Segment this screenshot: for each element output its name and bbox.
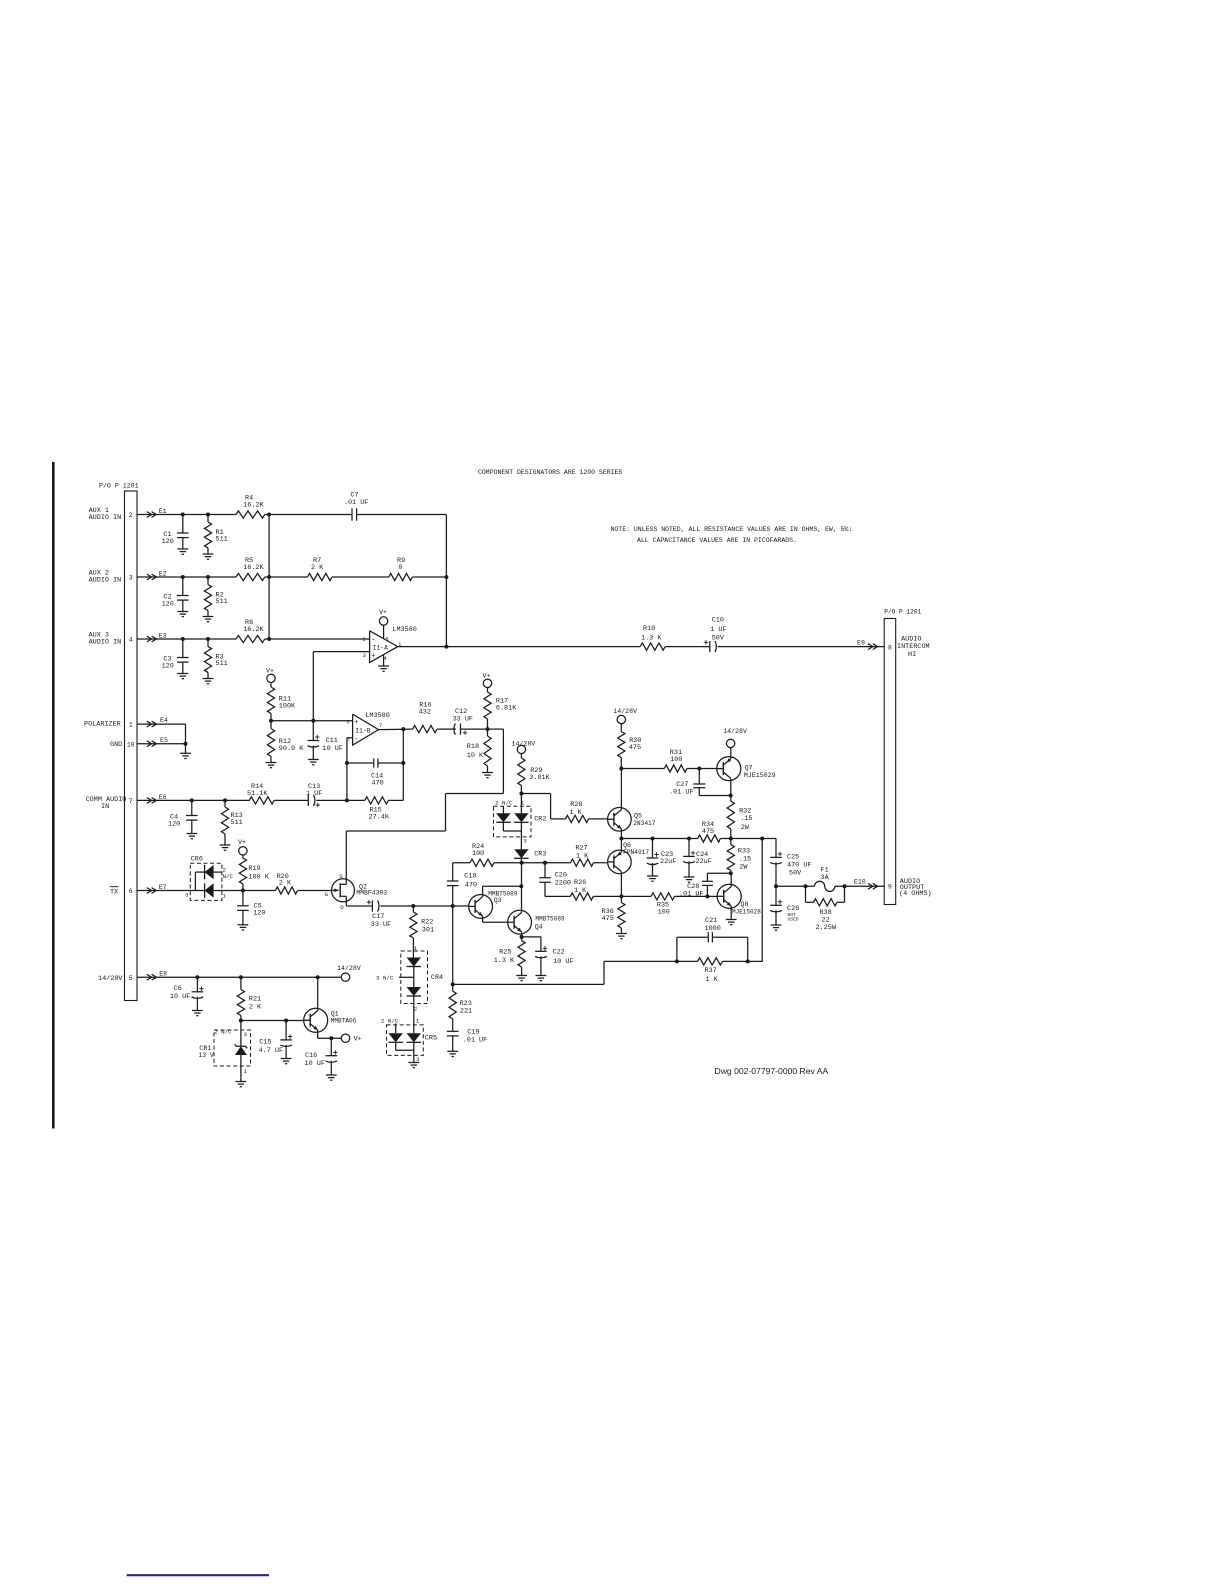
svg-text:I1-B: I1-B: [355, 727, 371, 734]
resistor R7: [308, 557, 333, 581]
wire I1-A output: [398, 646, 641, 648]
svg-text:LM3580: LM3580: [365, 712, 389, 720]
svg-text:Q8: Q8: [741, 901, 749, 908]
svg-text:C6: C6: [174, 985, 182, 993]
svg-text:14/28V: 14/28V: [613, 708, 637, 715]
svg-text:1 UF: 1 UF: [306, 790, 322, 798]
svg-text:S: S: [339, 873, 343, 880]
entry arrow E2: [147, 574, 157, 580]
power V+ R17: [483, 673, 492, 693]
svg-text:R18: R18: [467, 743, 479, 751]
ground C3: [177, 674, 188, 679]
svg-text:120: 120: [162, 663, 174, 671]
note text line1: [611, 526, 853, 533]
svg-text:7: 7: [129, 798, 133, 805]
svg-text:-: -: [354, 736, 358, 744]
svg-text:Q1: Q1: [331, 1010, 339, 1017]
wire R16 to C12: [437, 728, 456, 730]
svg-text:MMBF4393: MMBF4393: [356, 890, 387, 897]
ground C5: [238, 925, 249, 930]
svg-text:1 K: 1 K: [576, 853, 589, 861]
resistor R15: [347, 797, 403, 822]
svg-text:C11: C11: [326, 737, 338, 745]
capacitor C10: [704, 617, 727, 653]
svg-text:1 K: 1 K: [570, 809, 583, 817]
entry arrow E10: [868, 883, 878, 889]
capacitor C22: [522, 937, 574, 976]
entry arrow E7: [147, 888, 157, 894]
svg-text:MMBT5089: MMBT5089: [535, 916, 565, 923]
resistor R9: [389, 557, 413, 581]
svg-text:C17: C17: [372, 913, 384, 921]
wire R5 to R7: [265, 576, 308, 578]
svg-text:.15: .15: [740, 815, 752, 823]
svg-text:3A: 3A: [821, 874, 830, 882]
svg-text:3: 3: [129, 575, 133, 582]
resistor R16: [413, 702, 437, 733]
ground CR1: [236, 1082, 247, 1087]
label COMM AUDIO IN: [86, 796, 127, 811]
svg-text:C20: C20: [555, 872, 567, 880]
capacitor C24: [683, 839, 712, 878]
resistor R22: [410, 906, 434, 951]
svg-text:USED: USED: [788, 917, 799, 923]
transistor Q8 MJE15028: [717, 884, 761, 915]
ground R13: [220, 845, 231, 850]
svg-text:16.2K: 16.2K: [243, 564, 264, 572]
svg-text:100 K: 100 K: [248, 873, 269, 881]
capacitor C26: [770, 886, 799, 925]
wire I1-B minus input: [345, 738, 353, 803]
resistor R30: [618, 732, 642, 771]
wire Q8 collector: [730, 873, 732, 886]
wire Q3 collector: [483, 884, 524, 896]
zener CR1: [199, 1021, 251, 1082]
svg-text:V+: V+: [483, 673, 491, 680]
svg-text:CR5: CR5: [425, 1035, 437, 1043]
capacitor C11: [308, 721, 343, 760]
svg-text:-: -: [371, 636, 375, 644]
wire Q1 emitter: [318, 1030, 342, 1040]
wire E1 line: [137, 513, 271, 517]
diode pack CR6: [185, 855, 243, 900]
label E10: [854, 879, 866, 886]
svg-text:R28: R28: [570, 801, 582, 809]
resistor R5: [236, 557, 265, 581]
svg-text:FPN4917: FPN4917: [623, 849, 649, 856]
svg-text:E5: E5: [160, 737, 168, 744]
pin 10 label: [127, 741, 135, 748]
svg-text:E2: E2: [159, 571, 167, 578]
op-amp I1-B: [346, 714, 382, 745]
capacitor C14: [347, 758, 403, 787]
svg-text:511: 511: [216, 536, 228, 544]
label LM3580 I1-A: [392, 626, 416, 634]
resistor R26: [570, 879, 621, 900]
svg-text:4: 4: [129, 637, 133, 644]
svg-text:CR6: CR6: [191, 855, 203, 863]
resistor R10: [640, 625, 665, 650]
svg-text:3: 3: [244, 1031, 248, 1038]
label E6: [159, 794, 167, 801]
diode pack CR4: [376, 945, 443, 1013]
svg-text:R26: R26: [574, 879, 586, 887]
svg-text:120: 120: [162, 538, 174, 546]
svg-text:E7: E7: [159, 884, 167, 891]
wire node to Q2 source: [346, 729, 503, 879]
entry arrow E5: [147, 741, 157, 747]
svg-text:10 UF: 10 UF: [305, 1060, 325, 1068]
ground C26: [771, 925, 782, 930]
svg-text:14/28V: 14/28V: [723, 728, 747, 735]
capacitor C18: [447, 863, 477, 906]
svg-text:50V: 50V: [712, 635, 725, 643]
svg-text:14/28V: 14/28V: [512, 740, 536, 747]
title text: [478, 469, 622, 476]
svg-text:E4: E4: [160, 717, 168, 724]
svg-text:511: 511: [231, 819, 243, 827]
svg-text:R10: R10: [643, 625, 655, 633]
svg-text:9: 9: [888, 883, 892, 890]
svg-text:16.2K: 16.2K: [243, 626, 264, 634]
wire Q7 emitter: [730, 748, 732, 759]
ground R2: [203, 617, 214, 622]
svg-text:.01 UF: .01 UF: [679, 890, 703, 898]
diode pack CR2: [494, 794, 547, 850]
transistor Q2 MMBF4393: [325, 873, 388, 911]
wire E2 line: [137, 575, 448, 579]
resistor R38 parallel: [806, 886, 845, 932]
wire Q5 emitter: [619, 829, 623, 841]
resistor R29: [518, 758, 551, 796]
label E8: [159, 970, 167, 977]
svg-text:470 UF: 470 UF: [787, 862, 811, 870]
svg-text:E6: E6: [159, 794, 167, 801]
svg-text:5: 5: [129, 975, 133, 982]
svg-text:2W: 2W: [741, 824, 750, 832]
svg-text:R19: R19: [248, 865, 260, 873]
resistor R13: [221, 800, 242, 845]
label E5: [160, 737, 168, 744]
svg-text:13 V: 13 V: [199, 1052, 214, 1059]
ground R36: [616, 934, 627, 939]
svg-text:2: 2: [129, 512, 133, 519]
svg-text:7: 7: [379, 723, 382, 729]
connector label P/O P 1201 left: [99, 483, 139, 490]
label 14/28V: [98, 975, 123, 983]
wire Q2 drain: [346, 902, 372, 906]
svg-text:2W: 2W: [739, 863, 748, 871]
ground C16: [326, 1075, 337, 1080]
wire Q7 collector: [730, 778, 732, 801]
svg-text:R22: R22: [421, 919, 433, 927]
svg-text:AUDIO IN: AUDIO IN: [89, 514, 122, 522]
power V+ R11: [266, 668, 275, 688]
wire C13 to R15 node: [316, 799, 347, 801]
svg-text:HI: HI: [908, 651, 916, 659]
ground C23: [647, 876, 658, 881]
svg-text:33 UF: 33 UF: [371, 921, 391, 929]
svg-text:P/O P 1201: P/O P 1201: [884, 609, 921, 616]
wire Q3 emitter to Q4 base: [483, 916, 508, 922]
label AUX 2 AUDIO IN: [89, 570, 122, 585]
svg-text:1 UF: 1 UF: [710, 626, 726, 634]
wire Q6 emitter: [620, 839, 622, 853]
svg-text:R27: R27: [575, 845, 587, 853]
resistor R32: [727, 801, 752, 841]
wire R14 to C13: [274, 799, 308, 801]
resistor R31: [664, 749, 687, 772]
capacitor C19: [447, 1028, 487, 1051]
connector P/O P 1201 left: [125, 491, 138, 1001]
capacitor C13: [306, 783, 322, 807]
svg-text:GND: GND: [110, 741, 122, 749]
svg-text:2 N/C: 2 N/C: [495, 799, 513, 806]
label E9: [857, 640, 865, 647]
svg-text:R33: R33: [738, 848, 750, 856]
ground C4: [186, 834, 197, 839]
svg-text:16.2K: 16.2K: [243, 502, 264, 510]
transistor Q5 2N3417: [608, 808, 656, 832]
label E4: [160, 717, 168, 724]
resistor R2: [204, 577, 227, 617]
capacitor C20: [539, 861, 571, 897]
wire Q4 emitter: [520, 932, 524, 939]
svg-text:C25: C25: [787, 854, 799, 862]
resistor R18: [467, 729, 491, 772]
svg-text:E9: E9: [857, 640, 865, 647]
svg-text:IN: IN: [101, 803, 109, 811]
label E1: [159, 508, 167, 515]
capacitor C16: [305, 1038, 338, 1075]
capacitor C4: [168, 800, 198, 833]
wire C18 down to R23: [451, 906, 455, 986]
svg-text:R37: R37: [705, 967, 717, 975]
capacitor C23: [647, 839, 677, 877]
svg-text:10 UF: 10 UF: [170, 993, 190, 1001]
wire E5 line: [137, 742, 188, 754]
ground E4 E5: [180, 753, 191, 758]
svg-text:432: 432: [419, 709, 431, 717]
entry arrow E9: [868, 644, 878, 650]
wire R34 to C25 corner: [731, 837, 776, 858]
svg-text:1 K: 1 K: [574, 887, 587, 895]
label E3: [159, 633, 167, 640]
label AUDIO OUTPUT 4 OHMS: [899, 878, 932, 898]
resistor R35: [621, 893, 709, 917]
svg-text:P/O P 1201: P/O P 1201: [99, 483, 139, 490]
svg-text:E3: E3: [159, 633, 167, 640]
svg-text:(4 OHMS): (4 OHMS): [899, 890, 932, 898]
label TX: [110, 887, 119, 897]
label GND: [110, 741, 122, 749]
pin 3 label: [129, 575, 133, 582]
svg-text:1000: 1000: [705, 925, 721, 933]
svg-text:C18: C18: [464, 873, 476, 881]
svg-text:100: 100: [472, 850, 484, 858]
ground R25: [516, 976, 527, 981]
dwg number: [715, 1066, 829, 1076]
power V+ I1-A: [379, 609, 388, 638]
capacitor C3: [162, 639, 189, 674]
svg-text:4.7 UF: 4.7 UF: [259, 1047, 283, 1055]
svg-text:Q5: Q5: [634, 812, 642, 819]
connector P/O P 1201 right: [884, 619, 896, 905]
ground I1-A: [378, 655, 389, 671]
wire R4 to C7: [265, 514, 352, 516]
svg-text:51.1K: 51.1K: [247, 790, 268, 798]
svg-text:1: 1: [414, 945, 418, 952]
capacitor C15: [259, 1021, 293, 1059]
svg-text:N/C: N/C: [223, 873, 234, 880]
svg-text:V+: V+: [379, 609, 387, 616]
resistor R11: [267, 687, 296, 714]
svg-text:6.81K: 6.81K: [496, 705, 517, 713]
wire C12 to node: [461, 727, 490, 731]
svg-text:R25: R25: [499, 949, 511, 957]
terminal V+ Q1: [341, 1034, 361, 1043]
svg-text:1.3 K: 1.3 K: [641, 634, 662, 642]
capacitor C1: [162, 515, 189, 550]
transistor Q1 MMBTA06: [304, 1008, 357, 1032]
power 14/28V Q7: [723, 728, 747, 748]
svg-text:Q7: Q7: [745, 764, 753, 771]
resistor R23: [449, 984, 472, 1031]
svg-text:+: +: [371, 652, 375, 660]
svg-text:I1-A: I1-A: [373, 644, 389, 651]
svg-text:33 UF: 33 UF: [453, 716, 473, 724]
svg-text:D: D: [340, 904, 344, 911]
svg-text:Q4: Q4: [535, 923, 543, 930]
svg-text:C19: C19: [467, 1028, 479, 1036]
resistor R27: [522, 845, 608, 867]
ground R18: [482, 773, 493, 778]
diode CR3: [514, 849, 546, 864]
svg-text:120: 120: [162, 601, 174, 609]
svg-text:470: 470: [372, 779, 384, 787]
wire E6 line: [137, 798, 249, 802]
border left rule: [52, 462, 55, 1129]
svg-text:POLARIZER: POLARIZER: [84, 721, 121, 729]
connector label P/O P 1201 right: [884, 609, 921, 616]
svg-text:2 K: 2 K: [249, 1003, 262, 1011]
svg-text:8: 8: [385, 636, 388, 642]
entry arrow E3: [147, 636, 157, 642]
resistor R33: [727, 839, 751, 876]
pin 2 label: [129, 512, 133, 519]
label AUX 1 AUDIO IN: [89, 507, 122, 522]
svg-text:R32: R32: [739, 807, 751, 815]
wire feedback vertical: [444, 515, 448, 649]
wire I1-A plus input: [313, 652, 369, 721]
svg-text:2200: 2200: [555, 880, 571, 888]
ground CR5: [408, 1063, 419, 1068]
svg-text:C10: C10: [712, 617, 724, 625]
wire R31 to Q7: [687, 767, 717, 771]
svg-text:Q3: Q3: [494, 897, 502, 904]
wire R31 line: [621, 768, 664, 770]
svg-text:2 N/C: 2 N/C: [214, 1029, 232, 1036]
resistor R1: [204, 515, 227, 555]
svg-text:2 K: 2 K: [311, 564, 324, 572]
wire Q8 base: [707, 895, 717, 897]
ground R1: [203, 554, 214, 559]
svg-text:+: +: [354, 719, 358, 727]
transistor Q3 MMBT5089: [469, 890, 518, 918]
resistor R19: [239, 858, 269, 893]
note text line2: [637, 537, 797, 544]
label AUX 3 AUDIO IN: [89, 632, 122, 647]
svg-text:E8: E8: [159, 970, 167, 977]
capacitor C25: [770, 852, 811, 889]
pin 4 label: [129, 637, 133, 644]
capacitor C7: [344, 492, 368, 521]
pin 7 label: [129, 798, 133, 805]
svg-text:1: 1: [223, 892, 227, 899]
svg-text:22uF: 22uF: [696, 858, 712, 866]
resistor R21: [237, 977, 262, 1022]
ground Q8: [726, 920, 737, 925]
pin 6 label: [129, 888, 133, 895]
svg-text:10 UF: 10 UF: [323, 745, 343, 753]
svg-text:V+: V+: [266, 668, 274, 675]
svg-text:Dwg 002-07797-0000 Rev AA: Dwg 002-07797-0000 Rev AA: [715, 1066, 829, 1076]
capacitor C6: [170, 977, 204, 1010]
ground C15: [281, 1059, 292, 1064]
pin 9 label: [888, 883, 892, 890]
svg-text:AUDIO IN: AUDIO IN: [89, 638, 122, 646]
svg-text:CR3: CR3: [534, 850, 546, 858]
svg-text:475: 475: [602, 915, 614, 923]
svg-text:2 K: 2 K: [279, 880, 292, 888]
svg-text:475: 475: [702, 828, 714, 836]
svg-text:120: 120: [253, 910, 265, 918]
svg-text:E10: E10: [854, 879, 866, 886]
svg-text:AUDIO IN: AUDIO IN: [89, 576, 122, 584]
pin 8 label: [888, 644, 892, 651]
ground C19: [447, 1051, 458, 1056]
wire CR4 to CR5: [414, 1004, 420, 1025]
ground R3: [203, 679, 214, 684]
svg-text:MMBTA06: MMBTA06: [331, 1018, 357, 1025]
svg-text:100K: 100K: [279, 703, 296, 711]
svg-text:1: 1: [129, 722, 133, 729]
svg-text:CR4: CR4: [431, 974, 443, 982]
wire F1 to pin9: [835, 884, 884, 888]
footer underline: [127, 1574, 269, 1576]
pin 5 label: [129, 975, 133, 982]
resistor R4: [236, 494, 265, 518]
svg-text:V+: V+: [354, 1036, 362, 1043]
svg-text:LM3580: LM3580: [392, 626, 416, 634]
wire E7 line: [137, 890, 205, 892]
power V+ R19: [238, 839, 247, 858]
svg-text:5: 5: [346, 720, 349, 726]
transistor Q7 MJE15029: [717, 757, 776, 781]
diode pack CR5: [381, 1018, 437, 1064]
resistor R3: [204, 639, 227, 679]
svg-text:3 N/C: 3 N/C: [376, 975, 394, 982]
wire Q8 emitter: [730, 906, 732, 920]
svg-text:1: 1: [244, 1068, 248, 1075]
svg-text:1 K: 1 K: [706, 976, 719, 984]
label E7: [159, 884, 167, 891]
resistor R20: [243, 873, 332, 894]
label POLARIZER: [84, 721, 121, 729]
svg-text:1.3 K: 1.3 K: [494, 957, 515, 965]
svg-text:2N3417: 2N3417: [633, 820, 656, 827]
entry arrow E4: [147, 721, 157, 727]
